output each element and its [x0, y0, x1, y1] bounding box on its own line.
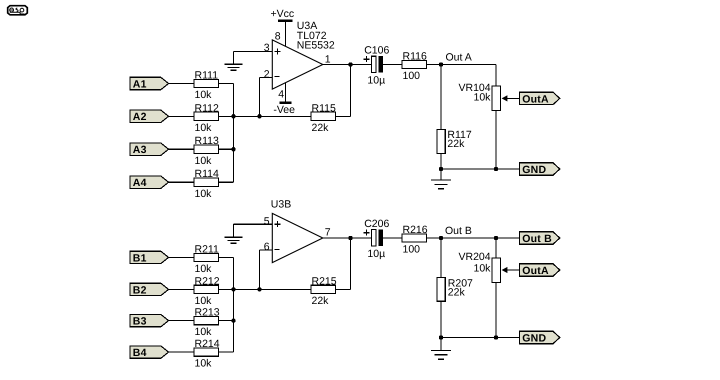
- junction output/feedback (B): [348, 236, 352, 240]
- resistor R117: [437, 129, 445, 153]
- svg-text:10µ: 10µ: [367, 248, 385, 260]
- resistor R215: [311, 285, 336, 293]
- svg-text:GND: GND: [522, 164, 546, 176]
- svg-text:R113: R113: [195, 135, 219, 147]
- junction output/feedback (A): [348, 62, 352, 66]
- wire R112 to bus: [219, 115, 260, 117]
- op-amp U3A: [272, 40, 323, 89]
- ground (section B): [431, 338, 451, 360]
- port tag GND (B): [520, 331, 560, 344]
- wire to VR104: [495, 65, 497, 87]
- resistor R116: [402, 60, 427, 68]
- junction riser/A2 (node sum A): [257, 114, 261, 118]
- node Out B: [439, 236, 443, 240]
- junction gnd/R207: [439, 335, 443, 339]
- wire R214 to bus: [219, 351, 234, 353]
- wire A2 tag to R112: [169, 115, 194, 117]
- svg-text:10k: 10k: [195, 155, 213, 167]
- svg-text:R115: R115: [312, 102, 336, 114]
- svg-text:R114: R114: [195, 168, 219, 180]
- svg-text:U3B: U3B: [271, 198, 291, 210]
- svg-text:NE5532: NE5532: [297, 40, 335, 52]
- wire feedback riser (A): [350, 65, 352, 117]
- svg-text:10k: 10k: [195, 188, 213, 200]
- junction bus/A3: [231, 147, 235, 151]
- node Out A: [439, 62, 443, 66]
- junction pot branch (B): [494, 236, 498, 240]
- port tag OutA (wiper B): [520, 264, 560, 277]
- wire node Out A to pot branch: [441, 64, 496, 66]
- wire R213 to bus: [219, 320, 234, 322]
- power -Vee: [273, 83, 295, 116]
- svg-text:R214: R214: [195, 338, 220, 350]
- svg-text:22k: 22k: [312, 122, 330, 134]
- svg-text:B4: B4: [133, 347, 147, 359]
- svg-text:VR204: VR204: [459, 251, 491, 263]
- svg-text:C106: C106: [364, 45, 389, 57]
- junction gnd/VR204: [494, 335, 498, 339]
- junction bus/B3: [231, 318, 235, 322]
- svg-text:8: 8: [275, 30, 281, 42]
- wire C206 to R216: [383, 237, 402, 239]
- wire ground rail (B): [441, 337, 520, 339]
- wire summing bus (B): [233, 257, 235, 352]
- junction bus/B2: [231, 287, 235, 291]
- svg-text:10k: 10k: [474, 91, 492, 103]
- wire U3B output (pin 7): [323, 237, 372, 239]
- wire Out B down to R207: [440, 238, 442, 278]
- resistor R114: [194, 178, 219, 186]
- wire B2 tag to R212: [169, 288, 194, 290]
- junction bus/A2: [231, 114, 235, 118]
- svg-text:10k: 10k: [195, 358, 213, 370]
- port tag B3: [130, 314, 169, 327]
- svg-text:Out B: Out B: [445, 225, 472, 237]
- wire B2 node to R215: [260, 288, 312, 290]
- wire ground rail (A): [441, 168, 520, 170]
- ground (section A): [431, 169, 451, 189]
- wire R113 to bus: [219, 148, 234, 150]
- resistor R216: [402, 234, 427, 242]
- wire R207 to ground rail (B): [440, 301, 442, 337]
- svg-text:R116: R116: [403, 51, 427, 63]
- svg-text:A2: A2: [133, 111, 147, 123]
- wire Out A down to R117: [440, 65, 442, 130]
- resistor R211: [194, 253, 219, 261]
- svg-text:OutA: OutA: [522, 93, 549, 105]
- svg-text:-Vee: -Vee: [273, 104, 295, 116]
- svg-text:4: 4: [278, 88, 284, 100]
- wire B4 tag to R214: [169, 351, 194, 353]
- junction gnd/R117: [439, 167, 443, 171]
- wire R111 to bus: [219, 83, 234, 85]
- junction riser/B2 (node sum B): [257, 287, 261, 291]
- potentiometer VR104: [492, 86, 520, 111]
- svg-text:Out B: Out B: [522, 233, 552, 245]
- ground (U3B pin 5): [225, 224, 243, 243]
- wire R116 to node Out A: [427, 64, 442, 66]
- resistor R111: [194, 79, 219, 87]
- wire U3A output (pin 1): [323, 64, 372, 66]
- svg-text:3: 3: [264, 42, 270, 54]
- svg-text:A1: A1: [133, 78, 147, 90]
- wire pin 5 to ground: [234, 223, 273, 225]
- port tag B1: [130, 251, 169, 264]
- junction gnd/VR104: [494, 167, 498, 171]
- ESP logo: [8, 6, 28, 15]
- capacitor C206: [363, 230, 383, 246]
- svg-text:C206: C206: [364, 218, 389, 230]
- svg-text:10k: 10k: [195, 326, 213, 338]
- port tag A3: [130, 143, 169, 156]
- resistor R112: [194, 112, 219, 120]
- wire pin 3 to ground: [234, 51, 273, 53]
- svg-text:6: 6: [264, 241, 270, 253]
- wire inverting riser (A): [259, 78, 261, 117]
- port tag A2: [130, 110, 169, 123]
- wire R115 to feedback riser: [336, 115, 351, 117]
- svg-text:22k: 22k: [448, 287, 466, 299]
- svg-text:10µ: 10µ: [367, 74, 385, 86]
- wire B1 tag to R211: [169, 256, 194, 258]
- svg-text:B1: B1: [133, 252, 147, 264]
- svg-text:7: 7: [325, 226, 331, 238]
- wire VR104 to ground rail (A): [495, 111, 497, 170]
- ground (U3A pin 3): [225, 52, 243, 71]
- wire B3 tag to R213: [169, 320, 194, 322]
- svg-text:10k: 10k: [195, 263, 213, 275]
- svg-text:+Vcc: +Vcc: [271, 8, 295, 20]
- wire R211 to bus: [219, 256, 234, 258]
- svg-text:R213: R213: [195, 307, 220, 319]
- wire VR204 to ground rail (B): [495, 283, 497, 338]
- resistor R113: [194, 145, 219, 153]
- svg-text:10k: 10k: [195, 295, 213, 307]
- svg-text:Out A: Out A: [446, 52, 472, 64]
- wire node Out B to OutB tag: [441, 237, 520, 239]
- wire A3 tag to R113: [169, 148, 194, 150]
- port tag B2: [130, 283, 169, 296]
- svg-text:100: 100: [403, 244, 421, 256]
- svg-text:R215: R215: [312, 275, 337, 287]
- wire summing bus (A): [233, 84, 235, 183]
- svg-text:R216: R216: [403, 224, 428, 236]
- power +Vcc: [271, 8, 295, 46]
- wire A4 tag to R114: [169, 181, 194, 183]
- port tag A4: [130, 176, 169, 189]
- wire R114 to bus: [219, 181, 234, 183]
- wire pin 2: [260, 77, 273, 79]
- svg-text:GND: GND: [522, 332, 546, 344]
- wire R117 to ground rail (A): [440, 154, 442, 170]
- svg-text:10k: 10k: [195, 122, 213, 134]
- wire inverting riser (B): [259, 250, 261, 289]
- svg-text:R211: R211: [195, 243, 219, 255]
- resistor R214: [194, 348, 219, 356]
- svg-text:22k: 22k: [447, 138, 465, 150]
- port tag B4: [130, 346, 169, 359]
- port tag OutA (wiper A): [520, 92, 560, 105]
- resistor R115: [311, 112, 336, 120]
- wire R216 to node Out B: [427, 237, 442, 239]
- resistor R207: [437, 278, 445, 302]
- resistor R212: [194, 285, 219, 293]
- svg-text:10k: 10k: [195, 89, 213, 101]
- svg-text:10k: 10k: [474, 262, 492, 274]
- port tag Out B: [520, 232, 560, 245]
- wire A1 tag to R111: [169, 83, 194, 85]
- svg-text:22k: 22k: [312, 295, 330, 307]
- wire C106 to R116: [383, 64, 402, 66]
- wire R212 to bus: [219, 288, 260, 290]
- wire R215 to feedback riser: [336, 288, 351, 290]
- svg-text:R212: R212: [195, 275, 220, 287]
- resistor R213: [194, 317, 219, 325]
- op-amp U3B: [272, 213, 323, 262]
- wire pin 6: [260, 249, 273, 251]
- port tag GND (A): [520, 163, 560, 176]
- wire feedback riser (B): [350, 238, 352, 289]
- svg-text:OutA: OutA: [522, 265, 549, 277]
- svg-text:B2: B2: [133, 284, 147, 296]
- svg-text:2: 2: [264, 68, 270, 80]
- svg-text:5: 5: [264, 215, 270, 227]
- svg-text:1: 1: [325, 53, 331, 65]
- potentiometer VR204: [492, 258, 520, 283]
- wire A2 node to R115: [260, 115, 312, 117]
- svg-text:R111: R111: [195, 70, 219, 82]
- wire to VR204: [495, 238, 497, 258]
- svg-text:R112: R112: [195, 102, 219, 114]
- svg-text:A4: A4: [133, 177, 147, 189]
- svg-text:100: 100: [403, 70, 421, 82]
- svg-text:A3: A3: [133, 144, 147, 156]
- port tag A1: [130, 77, 169, 90]
- capacitor C106: [363, 56, 383, 72]
- svg-text:B3: B3: [133, 316, 147, 328]
